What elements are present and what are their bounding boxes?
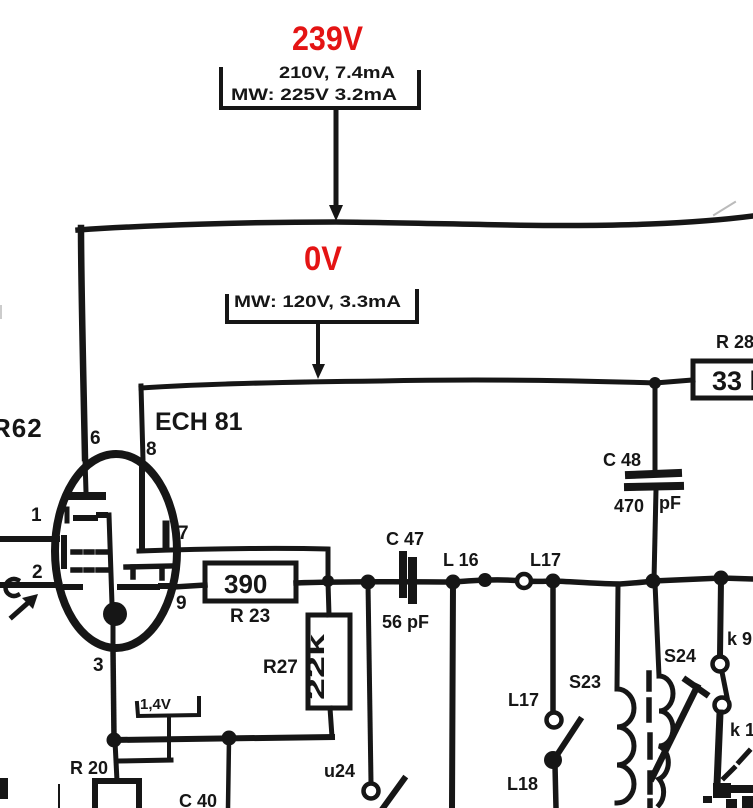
coil winding S23 bbox=[617, 585, 634, 803]
svg-text:56 pF: 56 pF bbox=[382, 612, 429, 632]
tube interior: cathode line and dot (pin 3) bbox=[103, 515, 127, 650]
switch contact open circle L17 bbox=[547, 713, 562, 728]
svg-text:6: 6 bbox=[90, 428, 101, 449]
switch contact open circle on wire bbox=[517, 574, 531, 588]
wire R27 top branch bbox=[328, 582, 329, 615]
svg-text:L 16: L 16 bbox=[443, 550, 479, 570]
svg-text:k 1: k 1 bbox=[730, 720, 753, 740]
main mid horizontal wire bbox=[296, 578, 753, 584]
switch lever S24 bbox=[652, 680, 706, 778]
switch contact open circle u24 bbox=[364, 784, 379, 799]
anode supply rail wire (top horizontal) bbox=[78, 216, 753, 230]
svg-text:210V, 7.4mA: 210V, 7.4mA bbox=[279, 63, 395, 82]
wire from 0V net down to tube pin 8 bbox=[141, 386, 143, 460]
tube interior: pin 8 lead bbox=[139, 461, 145, 549]
svg-text:22k: 22k bbox=[303, 633, 330, 700]
wire below L18 pivot bbox=[555, 765, 556, 808]
svg-text:MW: 120V, 3.3mA: MW: 120V, 3.3mA bbox=[234, 292, 401, 311]
svg-text:R 20: R 20 bbox=[70, 758, 108, 778]
tube interior: grid row 1 (dashed) bbox=[67, 509, 105, 521]
svg-text:u24: u24 bbox=[324, 761, 355, 781]
svg-text:L17: L17 bbox=[508, 690, 539, 710]
wire from C48 down to mid wire bbox=[654, 490, 656, 580]
tube interior: grid to pin 9 (dashed) bbox=[120, 586, 172, 587]
tube interior: triode grid bar with legs bbox=[126, 566, 170, 578]
measurement bracket 1.4V bbox=[119, 696, 199, 761]
svg-text:C 48: C 48 bbox=[603, 450, 641, 470]
svg-text:C 47: C 47 bbox=[386, 529, 424, 549]
switch pivot dot L18 bbox=[544, 751, 562, 769]
junction blob bottom right bbox=[713, 783, 731, 798]
resistor R28 box (clipped at right edge) bbox=[693, 361, 753, 398]
junction node at C40 bbox=[222, 731, 237, 746]
wire to pin 1 from left edge bbox=[0, 536, 57, 542]
svg-text:L18: L18 bbox=[507, 774, 538, 794]
wire from mid wire down to coil S24 bbox=[655, 583, 659, 676]
svg-text:9: 9 bbox=[176, 593, 187, 614]
svg-text:1: 1 bbox=[31, 505, 42, 526]
svg-text:R 28: R 28 bbox=[716, 332, 753, 352]
wire pin 9 to resistor R23 bbox=[174, 585, 205, 587]
svg-text:390: 390 bbox=[224, 569, 267, 599]
svg-text:R27: R27 bbox=[263, 657, 298, 678]
wire k9 branch down bbox=[720, 580, 721, 656]
wire from 120V box down with arrowhead bbox=[312, 324, 325, 379]
junction node at L16 bbox=[446, 575, 461, 590]
wire from pin 7 to R27 branch bbox=[139, 548, 328, 580]
junction node 0V net at C48 bbox=[649, 377, 661, 389]
capacitor C48 value 470 pF bbox=[614, 493, 681, 516]
faint smudge left edge bbox=[0, 305, 2, 319]
wire from 0V net down to C48 bbox=[653, 385, 658, 469]
resistor R20 box (clipped at bottom) bbox=[95, 781, 139, 808]
svg-text:k 9: k 9 bbox=[727, 629, 752, 649]
svg-text:8: 8 bbox=[146, 439, 157, 460]
wire C40 branch down bbox=[228, 739, 229, 808]
svg-text:L17: L17 bbox=[530, 550, 561, 570]
svg-text:MW: 225V 3.2mA: MW: 225V 3.2mA bbox=[231, 85, 397, 104]
resistor R23 bbox=[205, 563, 296, 627]
tube interior: grid row 4 short dash (pin 2) bbox=[66, 584, 80, 590]
svg-text:C 40: C 40 bbox=[179, 791, 217, 808]
switch contact open circle k9 bbox=[713, 657, 728, 672]
svg-text:470: 470 bbox=[614, 496, 644, 516]
wire R27 bottom to cathode net bbox=[330, 708, 332, 737]
tube interior: heptode anode plate (pin 6) bbox=[69, 459, 102, 496]
thin wire bottom left bbox=[58, 785, 60, 808]
svg-text:3: 3 bbox=[93, 655, 104, 676]
wire to pin 2 from left edge bbox=[0, 582, 55, 588]
junction node at u24 branch bbox=[361, 575, 376, 590]
capacitor label C5 (clipped bottom right) bbox=[703, 796, 712, 803]
resistor R27 bbox=[263, 615, 350, 708]
small switch lever lower right bbox=[724, 768, 734, 778]
screen grid wire (0V net horizontal) bbox=[141, 380, 693, 388]
junction node at L17 bbox=[546, 574, 561, 589]
svg-text:S24: S24 bbox=[664, 646, 696, 666]
faint smudge top right bbox=[714, 202, 735, 215]
measurement box MW 120V bbox=[227, 291, 417, 322]
svg-text:33 k: 33 k bbox=[712, 366, 753, 396]
coil winding S24 bbox=[659, 676, 673, 805]
svg-text:0V: 0V bbox=[304, 240, 342, 278]
svg-text:S23: S23 bbox=[569, 672, 601, 692]
tube interior: grid row 3 (dashed) bbox=[73, 567, 106, 573]
switch linkage dashed line S24 bbox=[649, 673, 650, 808]
cathode net horizontal wire bbox=[114, 737, 332, 740]
switch contact open circle k1 bbox=[715, 698, 730, 713]
tube interior: grid row 2 (dashed) bbox=[73, 549, 106, 555]
wire pin 3 down to junction bbox=[113, 650, 114, 738]
component bar at bottom left edge bbox=[0, 778, 8, 799]
switch mini lever between contacts bbox=[722, 672, 727, 697]
input arrow symbol at pin 2 bbox=[5, 579, 38, 617]
svg-text:2: 2 bbox=[32, 562, 43, 583]
tube interior: triode anode bar bbox=[163, 524, 170, 548]
wire u24 branch down bbox=[368, 583, 371, 783]
junction node at k9 branch bbox=[714, 571, 729, 586]
svg-text:R 23: R 23 bbox=[230, 606, 270, 627]
svg-text:239V: 239V bbox=[292, 20, 363, 58]
junction node at C48 bbox=[646, 574, 661, 589]
tube interior: grid post (pin 1) bbox=[61, 538, 67, 566]
measurement box 210V/225V bbox=[221, 63, 419, 108]
junction node right of L16 bbox=[478, 573, 492, 587]
svg-text:pF: pF bbox=[659, 493, 681, 513]
wire from measurement box to anode rail with arrowhead bbox=[329, 110, 343, 221]
svg-text:7: 7 bbox=[178, 523, 189, 544]
svg-text:1,4V: 1,4V bbox=[140, 696, 171, 713]
tube ECH81 envelope bbox=[55, 454, 177, 648]
wire L16 branch down bbox=[452, 583, 453, 808]
capacitor C48 plates bbox=[628, 473, 680, 487]
wire junction down to resistor R20 bbox=[115, 741, 117, 781]
svg-text:R62: R62 bbox=[0, 413, 43, 443]
junction node at R27 branch bbox=[322, 575, 334, 587]
svg-text:ECH 81: ECH 81 bbox=[155, 408, 243, 436]
switch lever u24 bbox=[383, 779, 404, 808]
wire below k1 contact bbox=[717, 713, 720, 785]
wire L17 branch down bbox=[550, 582, 556, 712]
wire from rail down to tube pin 6 bbox=[81, 228, 85, 458]
junction node below pin 3 bbox=[107, 733, 122, 748]
switch lever L18 bbox=[557, 720, 580, 755]
capacitor C47 plates bbox=[399, 551, 417, 604]
